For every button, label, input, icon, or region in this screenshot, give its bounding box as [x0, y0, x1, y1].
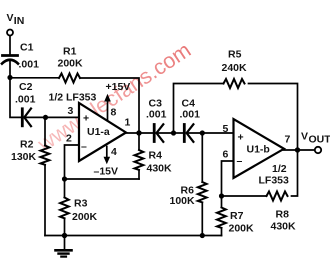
- junction dot R3 rail: [62, 233, 67, 238]
- wire node E to pin 5: [202, 132, 233, 134]
- node Vout terminal: [315, 147, 321, 153]
- resistor R4: [135, 150, 144, 170]
- svg-text:200K: 200K: [72, 211, 98, 223]
- node Vin terminal: [7, 30, 13, 36]
- junction dot R6 rail: [200, 233, 205, 238]
- svg-text:–15V: –15V: [94, 166, 119, 178]
- wire node C up to R5: [174, 84, 224, 134]
- node F: [219, 193, 224, 198]
- svg-text:–: –: [237, 155, 243, 167]
- wire node A to R1: [10, 77, 59, 79]
- wire C3 to node C: [157, 132, 174, 134]
- resistor R7: [217, 208, 226, 228]
- svg-text:+15V: +15V: [106, 81, 131, 93]
- wire node C to C4: [174, 132, 184, 134]
- svg-text:OUT: OUT: [309, 134, 330, 146]
- svg-text:4: 4: [111, 146, 117, 158]
- svg-text:R2: R2: [20, 139, 34, 151]
- node Vout: [295, 147, 300, 152]
- junction dot ground rail: [62, 233, 67, 238]
- svg-text:200K: 200K: [58, 58, 84, 70]
- wire U1-a output to node D: [126, 132, 154, 134]
- wire R3 to bottom rail: [64, 218, 66, 235]
- pin 8 +15V arrow: [107, 98, 109, 121]
- svg-text:R5: R5: [228, 49, 242, 61]
- resistor R5: [224, 79, 245, 88]
- svg-text:430K: 430K: [271, 221, 297, 233]
- svg-text:7: 7: [285, 134, 291, 146]
- wire node G down to R3: [64, 179, 66, 198]
- wire R5 to Vout corner: [249, 84, 298, 149]
- svg-text:130K: 130K: [11, 151, 37, 163]
- svg-text:R1: R1: [63, 46, 77, 58]
- wire C2 to node B: [25, 116, 46, 118]
- svg-text:240K: 240K: [222, 62, 248, 74]
- wire pin 6 from op-amp left down: [222, 161, 234, 196]
- capacitor C2: [21, 109, 24, 126]
- wire R6 to bottom rail: [201, 204, 203, 236]
- svg-text:1/2 LF353: 1/2 LF353: [49, 92, 97, 104]
- svg-text:+: +: [83, 113, 89, 125]
- node C: [171, 130, 176, 135]
- svg-text:V: V: [7, 12, 14, 24]
- svg-text:U1-a: U1-a: [87, 126, 110, 138]
- svg-text:R7: R7: [230, 210, 244, 222]
- svg-text:R8: R8: [276, 209, 290, 221]
- svg-text:1: 1: [125, 117, 131, 129]
- svg-text:U1-b: U1-b: [247, 144, 270, 156]
- svg-text:.001: .001: [180, 109, 201, 121]
- wire R7 to bottom rail: [221, 229, 223, 235]
- capacitor C4: [183, 125, 186, 142]
- pin 4 -15V arrow: [106, 147, 108, 160]
- svg-text:.001: .001: [15, 94, 36, 106]
- wire C1 to node A: [9, 61, 11, 78]
- resistor R8: [267, 192, 288, 201]
- node D: [136, 130, 141, 135]
- wire R2 from node B down: [44, 117, 46, 145]
- svg-text:.001: .001: [146, 109, 167, 121]
- svg-text:+: +: [238, 132, 244, 144]
- bottom rail: [45, 235, 222, 237]
- wire node G to R4 bottom: [65, 178, 140, 180]
- svg-text:6: 6: [223, 149, 229, 161]
- wire R4 from node D down: [138, 133, 140, 150]
- svg-text:8: 8: [111, 107, 117, 119]
- svg-text:V: V: [301, 131, 308, 143]
- resistor R1: [59, 74, 80, 83]
- wire C4 to node E: [187, 132, 203, 134]
- node B: [43, 115, 48, 120]
- capacitor C1: [3, 54, 18, 57]
- svg-text:3: 3: [68, 105, 74, 117]
- wire pin 2 from op-amp left: [65, 145, 80, 179]
- svg-text:R3: R3: [74, 198, 88, 210]
- resistor R3: [60, 198, 69, 219]
- wire R6 from node E down: [201, 133, 203, 182]
- wire U1-b output to Vout terminal: [284, 149, 315, 151]
- svg-text:1/2: 1/2: [272, 163, 287, 175]
- wire node B to pin 3: [46, 116, 80, 118]
- svg-text:IN: IN: [14, 15, 24, 27]
- svg-text:–: –: [81, 141, 87, 153]
- resistor R2: [41, 146, 50, 165]
- svg-text:5: 5: [223, 123, 229, 135]
- wire node F down to R7: [221, 196, 223, 207]
- op-amp U1-b: [234, 119, 285, 178]
- wire R4 to node G rail: [138, 171, 140, 179]
- op-amp U1-a: [79, 103, 126, 161]
- svg-text:2: 2: [66, 133, 72, 145]
- svg-text:R4: R4: [149, 150, 163, 162]
- ground: [64, 236, 66, 250]
- svg-text:LF353: LF353: [259, 175, 290, 187]
- wire R2 to bottom rail: [44, 165, 46, 236]
- svg-text:.001: .001: [19, 59, 40, 71]
- svg-text:C2: C2: [19, 81, 33, 93]
- junction dot node G: [62, 176, 67, 181]
- wire node A down to C2 corner: [10, 78, 21, 118]
- wire R8 to Vout corner: [292, 152, 298, 196]
- svg-text:430K: 430K: [147, 163, 173, 175]
- wire R1 to feedback corner and down to node D: [80, 78, 139, 131]
- resistor R6: [198, 182, 207, 202]
- svg-text:100K: 100K: [170, 195, 196, 207]
- node E: [200, 130, 205, 135]
- node A: [7, 75, 12, 80]
- wire Vin to C1: [9, 36, 11, 54]
- svg-text:C1: C1: [20, 42, 34, 54]
- capacitor C3: [153, 125, 156, 142]
- wire node F to R8: [222, 195, 267, 197]
- svg-text:200K: 200K: [229, 223, 255, 235]
